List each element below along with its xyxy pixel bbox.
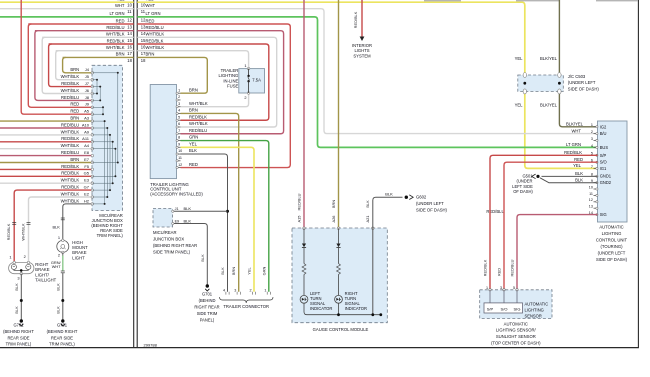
right brake light pin bump 3 — [20, 272, 23, 275]
svg-text:WHT/BLK: WHT/BLK — [61, 198, 80, 203]
wire BRN from top of page to gauge module A26 — [338, 0, 340, 228]
trailer unit pin stub 5 — [177, 119, 181, 121]
svg-text:AUTOMATIC: AUTOMATIC — [525, 301, 549, 306]
wire RED/BLK to interior lights system (arrow) — [361, 0, 363, 37]
trailer unit pin stub 7 — [177, 133, 181, 135]
inline connector on WHT/BLK wire — [27, 222, 31, 224]
panel divider left line — [133, 0, 135, 348]
svg-text:YEL: YEL — [146, 0, 155, 2]
svg-text:RED: RED — [496, 268, 501, 276]
wire row 10 YEL left panel — [0, 1, 134, 3]
svg-text:1: 1 — [178, 88, 180, 92]
ALCU pin bump 11 — [596, 194, 598, 196]
trailer unit pin stub 3 — [177, 106, 181, 108]
G602 arrowhead — [409, 195, 413, 200]
gauge pin bump A26 — [337, 227, 340, 230]
junction box pin bump J6 — [91, 92, 94, 95]
svg-text:2: 2 — [591, 130, 593, 134]
svg-text:A9: A9 — [84, 129, 90, 134]
page top text fragment 1 — [424, 0, 461, 1]
svg-text:REAR SIDE: REAR SIDE — [7, 335, 29, 340]
svg-text:GRN: GRN — [189, 135, 198, 140]
wire BLK/YEL from top of page to ALCU IG2 — [559, 0, 597, 127]
wire row 16 RED/BLK to trailer unit pin 5 — [137, 44, 269, 120]
svg-text:SIDE OF DASH): SIDE OF DASH) — [596, 257, 628, 262]
svg-text:7: 7 — [178, 129, 180, 133]
splice dot — [20, 299, 23, 302]
svg-text:1: 1 — [58, 235, 60, 240]
MICU/REAR junction box (left panel) — [92, 65, 123, 210]
wire row 16 RED/BLK left panel — [49, 43, 134, 45]
svg-text:SYSTEM: SYSTEM — [353, 53, 371, 58]
svg-text:13: 13 — [589, 205, 593, 209]
page top text fragment 2 — [516, 0, 560, 1]
junction box internal link J7-J8 — [92, 86, 100, 88]
wire junction row E8 RED/BLU from page edge — [0, 155, 92, 157]
svg-text:BLK: BLK — [200, 254, 205, 262]
svg-text:RED: RED — [189, 162, 198, 167]
svg-text:TRIM PANEL): TRIM PANEL) — [49, 342, 75, 347]
svg-text:WHT/BLK: WHT/BLK — [61, 191, 80, 196]
junction box pin bump E7 — [91, 161, 94, 164]
trailer unit pin bump 8 — [176, 139, 178, 141]
svg-text:IG1: IG1 — [600, 166, 607, 171]
svg-text:RED/BLK: RED/BLK — [6, 223, 11, 240]
wire junction row A9 WHT/BLK from page edge — [0, 134, 92, 136]
C503 terminal top — [523, 73, 526, 78]
svg-text:G701: G701 — [13, 323, 24, 328]
svg-text:LEFT SIDE: LEFT SIDE — [512, 184, 533, 189]
wire BLK right brake light pin3 to ground — [20, 274, 22, 321]
junction box pin bump A5 — [91, 113, 94, 116]
svg-text:RED/BLK: RED/BLK — [61, 136, 79, 141]
ALCU pin stub 5 — [594, 154, 598, 156]
svg-text:PANEL): PANEL) — [200, 317, 215, 322]
ALCU pin stub 12 — [594, 201, 598, 203]
svg-text:BRN: BRN — [189, 87, 198, 92]
trailer unit pin bump 11 — [176, 160, 178, 162]
ALCU pin stub 6 — [594, 161, 598, 163]
svg-text:A3: A3 — [84, 116, 90, 121]
junction box internal link J4-E7 — [92, 72, 118, 74]
svg-text:J1: J1 — [175, 207, 179, 211]
trailer unit pin stub 10 — [177, 153, 181, 155]
high mount pin bump top — [62, 239, 65, 242]
svg-text:SUNLIGHT SENSOR: SUNLIGHT SENSOR — [496, 334, 536, 339]
svg-text:YEL: YEL — [117, 0, 126, 2]
wire row 18 BRN to trailer unit pin 1 — [137, 57, 207, 93]
trailer lighting control unit box — [150, 85, 176, 179]
junction box internal link J5-J6 — [92, 79, 97, 81]
svg-text:BLK: BLK — [365, 200, 370, 208]
ALCU pin stub 1 — [594, 126, 598, 128]
ALCU pin bump 4 — [596, 146, 598, 148]
sensor inner box — [484, 303, 523, 313]
svg-text:JUNCTION BOX: JUNCTION BOX — [153, 237, 184, 242]
svg-text:4: 4 — [591, 144, 593, 148]
svg-text:RED/BLK: RED/BLK — [61, 164, 79, 169]
svg-text:(UNDER LEFT: (UNDER LEFT — [416, 201, 444, 206]
left turn signal indicator chain (diode, resistor, lamp) — [303, 228, 305, 243]
svg-text:F5: F5 — [84, 164, 89, 169]
ALCU pin bump 1 — [596, 126, 598, 128]
trailer unit pin bump 5 — [176, 119, 178, 121]
wire BRN trailer unit pin4 to trailer connector pin 3 — [181, 113, 239, 291]
svg-text:5: 5 — [178, 115, 180, 119]
gauge bottom rail — [304, 303, 381, 315]
G501 arrowhead — [532, 174, 536, 179]
C503 terminal bottom — [558, 89, 561, 94]
junction box internal link A4-G5 — [92, 148, 115, 150]
svg-text:S/O: S/O — [501, 306, 508, 311]
svg-text:LIGHTING SENSOR/: LIGHTING SENSOR/ — [496, 328, 537, 333]
wire BLK ALCU GND2 to G501 — [540, 178, 598, 183]
svg-text:RED/BLU: RED/BLU — [189, 128, 207, 133]
junction box pin bump J4 — [91, 72, 94, 75]
svg-text:GND2: GND2 — [600, 180, 612, 185]
svg-text:REAR SIDE: REAR SIDE — [51, 335, 73, 340]
svg-text:SIDE OF DASH): SIDE OF DASH) — [568, 86, 600, 91]
svg-text:A26: A26 — [331, 216, 336, 223]
svg-text:2: 2 — [58, 252, 60, 257]
MICU E9 pin bump — [172, 222, 174, 224]
junction box internal link J9-A5 — [92, 106, 103, 108]
junction connector J/C C503 box — [518, 75, 564, 91]
svg-text:J7: J7 — [85, 81, 90, 86]
svg-text:4: 4 — [178, 109, 180, 113]
svg-text:TRIM PANEL): TRIM PANEL) — [97, 233, 124, 238]
svg-text:(TOP CENTER OF DASH): (TOP CENTER OF DASH) — [491, 340, 541, 345]
svg-text:J6: J6 — [85, 88, 90, 93]
svg-text:INDICATOR: INDICATOR — [345, 306, 367, 311]
svg-text:1: 1 — [486, 286, 488, 290]
junction box pin bump A11 — [91, 141, 94, 144]
ALCU pin stub 11 — [594, 194, 598, 196]
svg-text:(BEHIND RIGHT REAR: (BEHIND RIGHT REAR — [153, 243, 197, 248]
svg-text:12: 12 — [178, 163, 182, 167]
svg-text:BLK: BLK — [52, 224, 60, 229]
trailer unit pin stub 4 — [177, 112, 181, 114]
wire row 16 corner down to junction pin J7 — [49, 44, 92, 87]
junction box internal link A11-E3 — [92, 141, 112, 143]
automatic lighting control unit box — [598, 121, 628, 222]
svg-text:RED/BLK: RED/BLK — [61, 81, 79, 86]
trailer unit pin bump 6 — [176, 126, 178, 128]
ALCU pin stub 2 — [594, 133, 598, 135]
svg-text:RED/BLK: RED/BLK — [564, 150, 582, 155]
ALCU pin stub 13 — [594, 207, 598, 209]
sensor internal stubs — [489, 290, 491, 303]
svg-text:9: 9 — [178, 142, 180, 146]
wire junction row A10 RED/BLU from page edge — [0, 127, 92, 129]
wire row 11 WHT left panel — [0, 8, 134, 10]
junction box pin bump F5 — [91, 168, 94, 171]
svg-text:RED/BLK: RED/BLK — [189, 114, 207, 119]
svg-text:RED/BLK: RED/BLK — [482, 259, 487, 276]
svg-text:11: 11 — [178, 156, 182, 160]
wire junction row E7 BRN from page edge — [0, 162, 92, 164]
svg-text:BRN: BRN — [70, 157, 79, 162]
trailer connector brace — [220, 297, 274, 303]
svg-text:2: 2 — [244, 95, 246, 100]
svg-text:(BEHIND: (BEHIND — [199, 298, 216, 303]
svg-text:WHT: WHT — [52, 264, 61, 269]
svg-text:G5: G5 — [84, 171, 90, 176]
svg-text:YEL: YEL — [189, 141, 198, 146]
ALCU pin bump 6 — [596, 161, 598, 163]
svg-text:299788: 299788 — [144, 342, 158, 347]
svg-text:RED/BLK: RED/BLK — [107, 38, 125, 43]
svg-text:3: 3 — [500, 286, 502, 290]
svg-text:WHT/BLK: WHT/BLK — [61, 88, 80, 93]
right brake light pin bump 1 — [13, 261, 16, 264]
ALCU pin stub 14 — [594, 214, 598, 216]
ground G501 dot — [536, 175, 539, 178]
svg-text:10: 10 — [127, 3, 132, 8]
svg-text:SENSOR: SENSOR — [525, 313, 542, 318]
wire RED from top of page down to junction pin A5 — [21, 0, 92, 114]
automatic lighting sensor box — [480, 290, 552, 319]
trailer unit pin stub 11 — [177, 160, 181, 162]
svg-text:RED: RED — [116, 18, 125, 23]
svg-text:RED: RED — [146, 18, 155, 23]
ALCU pin bump 2 — [596, 133, 598, 135]
svg-text:BRN: BRN — [331, 200, 336, 208]
svg-text:H2: H2 — [84, 198, 90, 203]
svg-text:E3: E3 — [84, 178, 90, 183]
svg-text:BLK/YEL: BLK/YEL — [566, 122, 584, 127]
svg-text:BLK: BLK — [14, 306, 19, 314]
svg-text:WHT/BLK: WHT/BLK — [61, 74, 80, 79]
trailer connector pin 2 terminal — [252, 292, 255, 295]
junction box pin bump E8 — [91, 154, 94, 157]
trailer unit pin bump 4 — [176, 112, 178, 114]
svg-text:(UNDER: (UNDER — [517, 179, 533, 184]
junction box pin bump G5 — [91, 175, 94, 178]
svg-text:A15: A15 — [296, 216, 301, 223]
wire RED/BLK junction G7 corner down to right brake light pin 1 — [14, 190, 92, 262]
wire row 14 RED/BLU to trailer unit pin 7 — [137, 31, 283, 134]
svg-text:BRN: BRN — [70, 116, 79, 121]
fuse element — [248, 69, 250, 76]
inline connector below green segment — [61, 270, 65, 272]
svg-text:G701: G701 — [202, 291, 213, 296]
svg-text:1: 1 — [591, 123, 593, 127]
trailer unit pin bump 2 — [176, 99, 178, 101]
svg-text:SIDE TRIM: SIDE TRIM — [197, 311, 218, 316]
svg-text:(TOURING): (TOURING) — [600, 244, 623, 249]
svg-text:BLK: BLK — [55, 306, 60, 314]
svg-text:RED: RED — [70, 102, 79, 107]
svg-text:B/U: B/U — [600, 131, 607, 136]
trailer connector pin 4 terminal — [226, 292, 229, 295]
svg-text:WHT/BLK: WHT/BLK — [189, 101, 208, 106]
svg-text:WHT: WHT — [571, 128, 581, 133]
wire RED/BLK ALCU S/P to sensor — [490, 155, 598, 289]
svg-text:G7: G7 — [84, 185, 90, 190]
svg-text:A11: A11 — [82, 136, 90, 141]
svg-text:WHT: WHT — [115, 3, 125, 8]
svg-text:WHT/BLK: WHT/BLK — [146, 32, 165, 37]
junction box pin bump A9 — [91, 134, 94, 137]
svg-text:1: 1 — [264, 288, 266, 292]
trailer unit pin bump 10 — [176, 153, 178, 155]
wire junction row A4 WHT/BLK from page edge — [0, 148, 92, 150]
svg-text:YEL: YEL — [247, 266, 252, 274]
wire row 17 WHT/BLK to in-line fuse — [137, 51, 248, 69]
junction box pin bump J8 — [91, 99, 94, 102]
svg-text:3: 3 — [234, 288, 236, 292]
wire junction row E3 WHT/BLK from page edge — [0, 182, 92, 184]
svg-text:LT GRN: LT GRN — [146, 11, 161, 16]
svg-text:J4: J4 — [85, 67, 90, 72]
svg-text:BLK: BLK — [184, 219, 192, 224]
svg-text:5: 5 — [513, 286, 515, 290]
svg-text:G602: G602 — [416, 195, 427, 200]
wire RED/BLU ALCU SIG to sensor — [517, 215, 598, 290]
C503 wire dot — [558, 82, 561, 85]
svg-text:A5: A5 — [84, 109, 90, 114]
svg-text:J/C C503: J/C C503 — [568, 74, 586, 79]
svg-text:A21: A21 — [365, 216, 370, 223]
trailer unit pin stub 1 — [177, 92, 181, 94]
svg-text:J5: J5 — [85, 74, 90, 79]
junction box pin bump J7 — [91, 85, 94, 88]
ALCU pin stub 4 — [594, 146, 598, 148]
svg-text:TRIM PANEL): TRIM PANEL) — [6, 342, 32, 347]
svg-text:11: 11 — [589, 192, 593, 196]
svg-text:GRN: GRN — [261, 266, 266, 275]
svg-text:10: 10 — [178, 149, 182, 153]
right lamp to rail — [338, 303, 340, 315]
ALCU pin stub 3 — [594, 139, 598, 141]
wire BLK gauge A21 up to G602 splice — [373, 197, 403, 315]
sensor pin bump S/P — [489, 289, 492, 292]
svg-text:BRN: BRN — [189, 108, 198, 113]
svg-text:7.5A: 7.5A — [252, 78, 261, 83]
svg-text:TRAILER CONNECTOR: TRAILER CONNECTOR — [223, 304, 269, 309]
svg-text:BLK: BLK — [189, 148, 197, 153]
svg-text:WHT/BLK: WHT/BLK — [61, 178, 80, 183]
junction box pin bump J9 — [91, 106, 94, 109]
svg-text:WHT: WHT — [146, 3, 156, 8]
svg-text:OF DASH): OF DASH) — [513, 189, 533, 194]
svg-text:TAILLIGHT: TAILLIGHT — [35, 278, 56, 283]
svg-text:BLK: BLK — [575, 171, 583, 176]
MICU/REAR junction box (middle, small) — [153, 209, 173, 228]
svg-text:BUS: BUS — [600, 145, 609, 150]
svg-text:RED/BLU: RED/BLU — [106, 25, 124, 30]
ALCU pin bump 10 — [596, 188, 598, 190]
ALCU pin stub 9 — [594, 182, 598, 184]
junction box internal link A9-G7 — [92, 134, 110, 136]
junction box pin bump H2 — [91, 203, 94, 206]
junction box pin bump A10 — [91, 127, 94, 130]
svg-text:LIGHTING: LIGHTING — [525, 307, 544, 312]
svg-text:RED/BLU: RED/BLU — [296, 193, 301, 210]
wire row 17 corner down to junction pin J5 — [56, 51, 92, 80]
svg-text:10: 10 — [589, 185, 593, 189]
svg-text:RIGHT REAR: RIGHT REAR — [194, 304, 219, 309]
wire BLK high mount to ground — [62, 273, 64, 321]
wire row 13 RED to trailer unit pin 12 — [137, 24, 290, 168]
inline connector on RED/BLK wire — [12, 222, 16, 224]
trailer unit pin bump 1 — [176, 92, 178, 94]
svg-text:2: 2 — [24, 254, 26, 259]
wire junction row A11 RED/BLK from page edge — [0, 141, 92, 143]
svg-text:BRN: BRN — [70, 67, 79, 72]
svg-text:BLK: BLK — [220, 267, 225, 275]
wire fuse to trailer unit pin 3 — [181, 93, 249, 107]
svg-text:A4: A4 — [84, 143, 90, 148]
svg-text:RED/BLU: RED/BLU — [486, 209, 504, 214]
ALCU pin stub 7 — [594, 167, 598, 169]
trailer connector pin 3 terminal — [237, 292, 240, 295]
wire row 17 WHT/BLK left panel — [56, 50, 134, 52]
ALCU pin bump 13 — [596, 207, 598, 209]
junction box pin bump A3 — [91, 120, 94, 123]
wire row 18 BRN left panel — [63, 56, 134, 58]
svg-text:RED/BLK: RED/BLK — [353, 11, 358, 28]
ALCU pin bump 7 — [596, 167, 598, 169]
C503 terminal bottom — [523, 89, 526, 94]
svg-text:(BEHIND RIGHT: (BEHIND RIGHT — [3, 329, 34, 334]
gauge control module box — [292, 228, 387, 323]
svg-text:12: 12 — [589, 198, 593, 202]
ALCU pin bump 9 — [596, 182, 598, 184]
wire BLK ALCU GND1 to G501 — [542, 175, 598, 177]
wire row 13 corner down to junction pin J9 — [28, 24, 92, 107]
wire BLK MICU E9 to ground G701 — [173, 224, 208, 286]
ground G602 dot — [405, 196, 408, 199]
svg-text:18: 18 — [127, 58, 132, 63]
trailer unit pin stub 8 — [177, 140, 181, 142]
wire BLK trailer unit pin10 to trailer connector pin 4 — [181, 154, 228, 292]
svg-text:13: 13 — [127, 25, 132, 30]
rail node right lamp — [337, 313, 340, 316]
wire junction row A3 BRN from page edge — [0, 120, 92, 122]
junction box pin bump E3 — [91, 182, 94, 185]
wire row 18 corner down to junction pin J4 — [63, 57, 92, 72]
trailer unit pin stub 9 — [177, 146, 181, 148]
junction box pin bump J5 — [91, 78, 94, 81]
trailer connector pin 1 terminal — [267, 292, 270, 295]
wire row 12 LT GRN left panel — [0, 16, 134, 18]
svg-text:14: 14 — [127, 31, 132, 36]
svg-text:WHT/BLK: WHT/BLK — [106, 45, 125, 50]
svg-text:BLK: BLK — [575, 177, 583, 182]
wire row 14 corner down to junction pin J8 — [35, 31, 92, 101]
right brake light pin bump 2 — [27, 261, 30, 264]
wire WHT/BLK junction H2 corner down toward high mount brake light — [63, 204, 92, 241]
svg-text:GND1: GND1 — [600, 174, 612, 179]
wire YEL trailer unit pin9 to trailer connector pin 2 — [181, 147, 255, 292]
svg-text:BLK: BLK — [55, 283, 60, 291]
trailer unit pin stub 12 — [177, 167, 181, 169]
svg-text:LIGHTING: LIGHTING — [602, 231, 622, 236]
wire row 11 WHT across to right panel — [137, 9, 597, 134]
right turn signal indicator chain (diode, resistor, lamp) — [338, 228, 340, 243]
svg-text:LT GRN: LT GRN — [110, 11, 125, 16]
svg-text:AUTOMATIC: AUTOMATIC — [599, 225, 623, 230]
MICU J1 pin bump — [172, 210, 174, 212]
svg-text:RED/BLU: RED/BLU — [146, 25, 164, 30]
wire GRN trailer unit pin8 to trailer connector pin 1 — [181, 141, 269, 292]
right brake light common node — [20, 269, 23, 272]
svg-text:BLK/YEL: BLK/YEL — [540, 56, 558, 61]
svg-text:WHT/BLK: WHT/BLK — [189, 121, 208, 126]
trailer unit pin bump 3 — [176, 106, 178, 108]
